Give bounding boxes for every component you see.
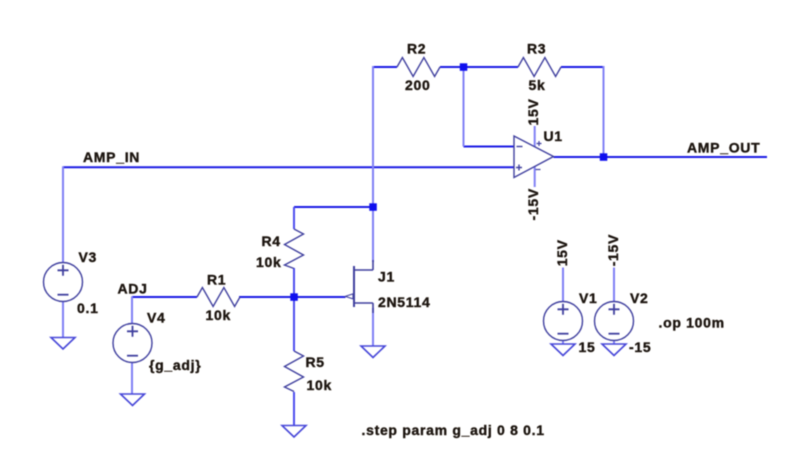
svg-text:.op 100m: .op 100m xyxy=(659,315,725,331)
wire V2 top xyxy=(613,268,615,302)
svg-text:10k: 10k xyxy=(206,307,231,323)
wire top feedback left segment xyxy=(373,66,397,68)
wire inverting input horizontal xyxy=(464,146,515,148)
transistor J1 xyxy=(353,266,355,307)
svg-text:R3: R3 xyxy=(527,41,546,57)
svg-text:V3: V3 xyxy=(79,249,98,265)
wire vertical drain to top feedback xyxy=(372,66,374,262)
junction node R2/R3/inverting xyxy=(460,63,468,71)
svg-text:V2: V2 xyxy=(630,290,649,306)
svg-text:V1: V1 xyxy=(579,290,598,306)
svg-text:5k: 5k xyxy=(529,77,546,93)
svg-text:R5: R5 xyxy=(306,354,325,370)
svg-text:R1: R1 xyxy=(207,272,226,288)
svg-text:-15: -15 xyxy=(629,339,651,355)
ground under V2 xyxy=(602,344,626,356)
svg-text:R2: R2 xyxy=(407,41,426,57)
wire vertical R4 top lead xyxy=(293,207,295,229)
ground under V3 xyxy=(51,338,75,350)
resistor R4 xyxy=(285,229,304,269)
wire vertical ADJ corner to V4 xyxy=(131,296,133,323)
resistor R1 xyxy=(197,288,240,307)
voltage source V1 xyxy=(544,302,583,341)
wire vertical AMP_IN corner to V3 xyxy=(62,166,64,262)
wire R1 to gate xyxy=(239,296,346,298)
svg-text:15V: 15V xyxy=(525,98,541,125)
junction node drain/R4 xyxy=(369,203,377,211)
svg-text:.step param g_adj 0 8 0.1: .step param g_adj 0 8 0.1 xyxy=(362,422,545,438)
svg-text:10k: 10k xyxy=(256,254,281,270)
wire output AMP_OUT xyxy=(554,156,768,158)
resistor R2 xyxy=(397,58,440,77)
svg-text:AMP_IN: AMP_IN xyxy=(83,149,140,165)
wire vertical feedback node to inverting input xyxy=(463,66,465,147)
wire vertical V4 to ground xyxy=(131,363,133,395)
wire op-amp V- pin xyxy=(534,167,536,188)
svg-text:R4: R4 xyxy=(262,233,281,249)
wire vertical V3 to ground xyxy=(62,302,64,338)
wire between R2 and R3 xyxy=(440,66,518,68)
wire vertical R3 right to output xyxy=(603,66,605,157)
voltage source V2 xyxy=(595,302,634,341)
wire right of R3 xyxy=(561,66,604,68)
svg-text:ADJ: ADJ xyxy=(118,281,148,297)
svg-text:200: 200 xyxy=(405,77,430,93)
svg-text:15: 15 xyxy=(579,339,596,355)
svg-text:AMP_OUT: AMP_OUT xyxy=(687,140,760,156)
resistor R5 xyxy=(285,351,304,392)
wire V4 to R1 xyxy=(132,296,197,298)
wire V1 top xyxy=(562,268,564,302)
junction node output xyxy=(600,153,608,161)
ground under J1 source xyxy=(361,346,385,358)
op-amp U1 xyxy=(514,136,554,178)
svg-text:2N5114: 2N5114 xyxy=(378,294,430,310)
wire vertical source to ground xyxy=(372,308,374,346)
wire vertical R5 bottom to ground xyxy=(293,392,295,426)
wire V1 bottom xyxy=(562,341,564,345)
wire AMP_IN horizontal xyxy=(63,166,514,168)
svg-text:0.1: 0.1 xyxy=(77,300,99,316)
voltage source V3 xyxy=(44,263,83,302)
svg-text:-15V: -15V xyxy=(605,234,621,266)
svg-text:-15V: -15V xyxy=(525,188,541,220)
svg-text:V4: V4 xyxy=(147,310,166,326)
svg-text:15V: 15V xyxy=(554,239,570,266)
svg-text:{g_adj}: {g_adj} xyxy=(149,357,201,373)
wire vertical R4 bottom to R5 top xyxy=(293,268,295,351)
ground under V4 xyxy=(121,394,145,406)
ground under R5 xyxy=(282,426,306,438)
ground under V1 xyxy=(551,344,575,356)
wire R4 top horizontal xyxy=(294,206,373,208)
svg-text:U1: U1 xyxy=(544,128,563,144)
resistor R3 xyxy=(518,58,561,77)
svg-text:J1: J1 xyxy=(378,269,395,285)
voltage source V4 xyxy=(113,324,152,363)
junction node R1/R4/R5/gate xyxy=(290,293,298,301)
svg-text:10k: 10k xyxy=(307,377,332,393)
wire V2 bottom xyxy=(613,341,615,345)
wire op-amp V+ pin xyxy=(534,126,536,147)
